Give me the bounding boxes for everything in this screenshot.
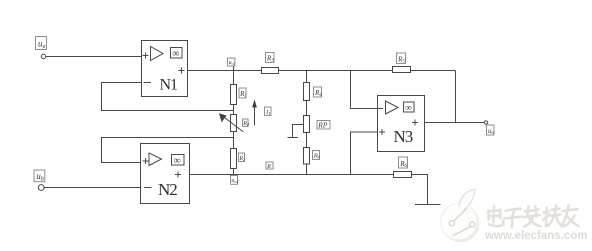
- svg-text:uo1: uo1: [229, 60, 236, 66]
- wire N1 feedback to pot top: [102, 83, 234, 111]
- potentiometer RP body: [304, 116, 310, 133]
- terminal uo label: [487, 125, 495, 136]
- svg-text:www.elecfans.com: www.elecfans.com: [484, 230, 587, 242]
- op-amp N2: [141, 144, 190, 204]
- watermark logo: [441, 188, 480, 242]
- potentiometer RP1 label: [242, 119, 250, 127]
- svg-text:N2: N2: [158, 180, 177, 199]
- svg-text:RP: RP: [242, 121, 250, 127]
- wire R3 to node at N3 minus: [279, 70, 393, 72]
- svg-text:∞: ∞: [174, 156, 181, 167]
- node uo2 label: [231, 176, 239, 185]
- svg-text:R6: R6: [313, 153, 321, 160]
- resistor R4: [304, 83, 323, 101]
- svg-text:N3: N3: [394, 127, 413, 146]
- potentiometer RP1 arrow: [219, 113, 244, 132]
- svg-text:I1: I1: [265, 109, 270, 116]
- svg-text:R: R: [266, 164, 271, 170]
- ground below N3: [415, 204, 441, 206]
- node R label mid: [266, 162, 273, 170]
- resistor R2: [231, 149, 246, 169]
- wire N1 output to node uo1: [188, 70, 262, 72]
- terminal ua circle: [41, 54, 45, 58]
- current I1 label: [265, 107, 272, 116]
- wire R7 to ground: [412, 175, 428, 205]
- wire R5 to feedback corner: [411, 70, 456, 72]
- op-amp N1: [142, 41, 188, 97]
- wire N2 output to N3 plus: [190, 174, 394, 176]
- potentiometer RP label: [317, 120, 330, 129]
- terminal uo circle: [484, 121, 487, 124]
- resistor R1: [231, 85, 247, 105]
- wire N3 minus input: [351, 71, 378, 109]
- resistor R6: [304, 148, 321, 165]
- op-amp N3: [378, 96, 425, 152]
- wire ub to N2: [44, 187, 140, 189]
- wire RP wiper to ground: [293, 125, 304, 138]
- wire N3 output: [425, 122, 485, 124]
- svg-text:uo2: uo2: [231, 178, 238, 184]
- wire feedback vertical: [455, 71, 457, 123]
- current I1 arrow: [252, 100, 257, 126]
- terminal ub circle: [38, 185, 44, 191]
- resistor R5: [393, 53, 411, 73]
- svg-text:R2: R2: [238, 156, 245, 162]
- wire ua to N1: [46, 56, 142, 58]
- potentiometer RP1 body: [231, 115, 237, 132]
- resistor R3: [262, 53, 279, 74]
- wire divider column: [306, 71, 308, 175]
- wire gain chain column: [233, 71, 235, 175]
- ground at RP wiper: [288, 137, 299, 139]
- watermark chinese text: [488, 206, 579, 227]
- node uo1 label: [228, 58, 236, 71]
- svg-text:RP: RP: [317, 120, 328, 129]
- terminal ub label: [34, 170, 45, 183]
- svg-text:N1: N1: [160, 77, 179, 94]
- terminal ua label: [36, 37, 47, 50]
- resistor R7: [394, 157, 412, 178]
- svg-text:∞: ∞: [172, 49, 179, 60]
- wire N3 plus input: [351, 132, 378, 175]
- wire N2 feedback to pot bottom: [102, 138, 234, 163]
